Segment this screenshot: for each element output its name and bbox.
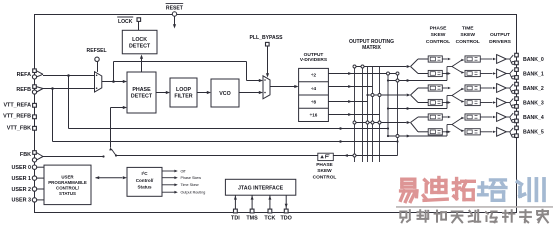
block output V-dividers	[299, 68, 329, 121]
output driver buffer bank 4	[497, 113, 507, 122]
svg-text:OUTPUT ROUTING: OUTPUT ROUTING	[349, 39, 394, 45]
svg-text:LOOP: LOOP	[176, 87, 191, 93]
svg-text:÷2: ÷2	[311, 73, 317, 78]
pin BANK_3 complement output	[515, 105, 519, 109]
svg-text:÷16: ÷16	[310, 113, 318, 118]
svg-text:I²C: I²C	[141, 171, 148, 176]
node REFA branch	[67, 74, 70, 77]
pin BANK_2 complement output	[515, 90, 519, 94]
wire time skew to driver bank 5	[480, 131, 492, 133]
pin TCK	[269, 195, 271, 211]
svg-text:TIME: TIME	[462, 26, 474, 32]
legend arrow Output Routing	[162, 191, 175, 193]
wire REFB to mux	[43, 88, 95, 90]
wire feedback skew to FBK switch	[116, 155, 318, 157]
wire REFSEL to input mux	[97, 62, 99, 72]
svg-text:RESET: RESET	[166, 6, 184, 12]
time skew control block bank 2	[465, 85, 480, 91]
pin TMS	[251, 195, 253, 211]
wire fanout to bank pair 2/3	[407, 94, 411, 97]
svg-text:PHASE: PHASE	[316, 162, 333, 168]
pin TDO	[285, 195, 287, 211]
wire phase skew to crossbar bank 0	[442, 58, 447, 60]
svg-text:LOCK: LOCK	[132, 37, 147, 43]
wire divider output 1 to matrix	[328, 86, 372, 88]
svg-text:BANK_5: BANK_5	[523, 130, 544, 136]
wire matrix direct feed pair 4/5	[388, 135, 447, 137]
wire time skew to driver bank 3	[480, 102, 492, 104]
svg-text:PHASE: PHASE	[132, 87, 151, 93]
wire driver to pins bank 5	[506, 131, 510, 133]
pin BANK_4 true output	[515, 111, 519, 115]
block LOOP FILTER U_LF	[170, 78, 197, 107]
output driver buffer bank 2	[497, 84, 507, 93]
time skew control block bank 1	[465, 70, 480, 76]
input buffer REFB	[36, 87, 43, 89]
svg-text:USER: USER	[61, 175, 74, 180]
matrix right verticals	[387, 74, 389, 137]
watermark underline	[396, 206, 553, 208]
wire driver to pins bank 4	[506, 116, 510, 118]
svg-text:PHASE: PHASE	[430, 26, 448, 32]
watermark brand text	[401, 179, 417, 201]
wire driver to pins bank 0	[506, 58, 510, 60]
wire divider output 2 to matrix	[328, 101, 367, 103]
output driver buffer bank 0	[497, 55, 507, 64]
svg-text:USER 2: USER 2	[12, 187, 31, 193]
input buffer REFA	[36, 71, 43, 75]
wire divider output 3 to matrix	[328, 114, 379, 116]
wire feedback to phase detect	[110, 108, 112, 148]
svg-text:MATRIX: MATRIX	[362, 45, 381, 51]
svg-text:SKEW: SKEW	[460, 32, 475, 38]
wire RESET into chip	[174, 16, 176, 24]
crossbar pair 4/5	[446, 125, 448, 137]
block LOCK DETECT U_LD	[122, 30, 157, 54]
svg-text:REFA: REFA	[17, 72, 31, 78]
svg-text:TDO: TDO	[281, 216, 292, 222]
block I2C CONTROL/STATUS	[127, 167, 162, 196]
block JTAG INTERFACE	[225, 179, 295, 195]
pin BANK_5 true output	[515, 126, 519, 130]
wire driver to pins bank 3	[506, 102, 510, 104]
inversion bubble BANK_2	[512, 90, 515, 93]
wire driver to pins bank 1	[506, 73, 510, 75]
wire FBK to switch	[43, 156, 104, 158]
svg-text:VTT_REFA: VTT_REFA	[3, 102, 31, 108]
wire loop filter to VCO	[197, 92, 207, 94]
wire phase skew to crossbar bank 2	[442, 87, 447, 89]
svg-text:TDI: TDI	[231, 216, 240, 222]
wire phase detect to loop filter	[156, 92, 166, 94]
wire driver to pins bank 2	[506, 87, 510, 89]
svg-text:BANK_1: BANK_1	[523, 71, 544, 77]
phase skew control block bank 2	[428, 85, 442, 91]
svg-text:V-DIVIDERS: V-DIVIDERS	[300, 57, 328, 63]
block VCO U_VCO	[211, 79, 239, 107]
output driver buffer bank 5	[497, 127, 507, 136]
legend arrow Time Skew	[162, 184, 175, 186]
wire matrix direct feed pair 0/1	[388, 80, 447, 82]
svg-text:VCO: VCO	[219, 91, 230, 97]
svg-text:LOCK: LOCK	[118, 19, 133, 25]
wire phase skew to crossbar bank 3	[442, 102, 447, 104]
wire PLL_BYPASS to bypass mux	[267, 46, 269, 74]
svg-text:÷8: ÷8	[311, 99, 317, 104]
wire USER to I2C bidirectional	[96, 177, 123, 179]
time skew control block bank 4	[465, 114, 480, 120]
phase skew control block bank 5	[428, 129, 442, 135]
svg-text:BANK_0: BANK_0	[523, 57, 544, 63]
wire matrix feed bank pair 4/5	[355, 122, 407, 124]
svg-text:CONTROL: CONTROL	[426, 39, 450, 45]
output driver buffer bank 3	[497, 98, 507, 107]
wire matrix to feedback phase skew	[333, 155, 397, 157]
svg-text:PROGRAMMABLE: PROGRAMMABLE	[48, 180, 87, 185]
output routing matrix vertical bus	[354, 67, 356, 163]
svg-text:REFB: REFB	[16, 87, 31, 93]
svg-text:USER 3: USER 3	[12, 198, 31, 204]
svg-text:SKEW: SKEW	[431, 32, 446, 38]
wire VCO to bypass mux	[239, 92, 259, 94]
crossbar pair 2/3	[446, 96, 448, 109]
wire matrix feed bank pair 0/1	[355, 66, 407, 68]
svg-text:SKEW: SKEW	[317, 168, 332, 174]
wire bypass mux to dividers	[270, 86, 295, 88]
pin BANK_4 complement output	[515, 119, 519, 123]
svg-text:Output Routing: Output Routing	[181, 191, 206, 195]
crossbar pair 0/1	[446, 67, 448, 81]
switch FBK select	[111, 149, 116, 156]
inversion bubble BANK_0	[512, 61, 515, 64]
svg-text:BANK_4: BANK_4	[523, 115, 544, 121]
phase skew control block bank 0	[428, 56, 442, 62]
pin BANK_1 true output	[515, 68, 519, 72]
wire PLL bypass path	[113, 62, 115, 82]
svg-text:REFSEL: REFSEL	[87, 48, 107, 54]
node REFB branch	[51, 87, 54, 90]
svg-text:CONTROL: CONTROL	[313, 174, 337, 180]
wire REFA to mux	[43, 75, 95, 77]
wire phase detect to lock detect	[141, 59, 143, 73]
svg-text:CONTROL: CONTROL	[456, 39, 480, 45]
pin BANK_1 complement output	[515, 76, 519, 80]
wire phase skew to crossbar bank 1	[442, 73, 447, 75]
wire REFB test path into matrix	[52, 89, 54, 142]
svg-text:PLL_BYPASS: PLL_BYPASS	[249, 35, 283, 41]
inversion bubble BANK_4	[512, 119, 515, 122]
feedback phase skew control block A/F	[318, 153, 334, 160]
wire divider output 0 to matrix	[328, 73, 397, 75]
legend arrow Off	[162, 170, 175, 172]
wire time skew to driver bank 0	[480, 58, 492, 60]
svg-text:VTT_FBK: VTT_FBK	[7, 125, 31, 131]
IC package outline	[35, 15, 517, 213]
svg-text:USER 1: USER 1	[12, 176, 31, 182]
svg-text:JTAG INTERFACE: JTAG INTERFACE	[238, 186, 284, 192]
pin BANK_0 complement output	[515, 61, 519, 65]
wire fanout to bank pair 4/5	[407, 121, 411, 124]
phase skew control block bank 4	[428, 114, 442, 120]
svg-text:CONTROL/: CONTROL/	[56, 186, 80, 191]
svg-text:FBK: FBK	[20, 152, 31, 158]
time skew control block bank 3	[465, 99, 480, 105]
time skew control block bank 0	[465, 56, 480, 62]
svg-text:BANK_3: BANK_3	[523, 100, 544, 106]
wire mux output to phase detector	[102, 81, 123, 83]
inversion bubble BANK_5	[512, 134, 515, 137]
wire phase skew to crossbar bank 4	[442, 116, 447, 118]
watermark slogan text	[400, 210, 409, 222]
wire fanout to bank pair 0/1	[407, 65, 411, 68]
svg-text:Phase Skew: Phase Skew	[181, 176, 202, 180]
input buffer FBK	[36, 153, 43, 157]
inversion bubble BANK_3	[512, 105, 515, 108]
legend arrow Phase Skew	[162, 177, 175, 179]
wire phase skew to crossbar bank 5	[442, 131, 447, 133]
phase skew control block bank 1	[428, 70, 442, 76]
svg-text:DETECT: DETECT	[131, 93, 153, 99]
svg-text:TCK: TCK	[264, 216, 275, 222]
wire time skew to driver bank 2	[480, 87, 492, 89]
svg-text:VTT_REFB: VTT_REFB	[3, 114, 31, 120]
pin BANK_0 true output	[515, 53, 519, 57]
wire LOCK to lock detect	[138, 21, 140, 30]
wire time skew to driver bank 4	[480, 116, 492, 118]
wire matrix direct feed pair 2/3	[388, 108, 447, 110]
svg-text:OUTPUT: OUTPUT	[490, 32, 510, 38]
svg-text:DRIVERS: DRIVERS	[489, 39, 511, 45]
svg-text:TMS: TMS	[246, 216, 258, 222]
phase skew control block bank 3	[428, 99, 442, 105]
output driver buffer bank 1	[497, 69, 507, 78]
time skew control block bank 5	[465, 129, 480, 135]
pin BANK_3 true output	[515, 97, 519, 101]
svg-text:Status: Status	[137, 184, 151, 189]
pin BANK_2 true output	[515, 82, 519, 86]
pin BANK_5 complement output	[515, 134, 519, 138]
pin TDI	[234, 195, 236, 211]
svg-text:DETECT: DETECT	[129, 44, 151, 50]
block USER PROGRAMMABLE CONTROL/STATUS	[44, 165, 91, 205]
svg-text:USER 0: USER 0	[12, 165, 31, 171]
svg-text:÷4: ÷4	[311, 86, 317, 91]
wire matrix feed bank pair 2/3	[368, 94, 407, 96]
svg-text:Control/: Control/	[136, 178, 154, 183]
block PHASE DETECT U_PD	[127, 72, 156, 113]
svg-text:STATUS: STATUS	[59, 191, 76, 196]
svg-text:BANK_2: BANK_2	[523, 86, 544, 92]
wire time skew to driver bank 1	[480, 73, 492, 75]
node bypass branch	[112, 80, 115, 83]
wire REFA test path into matrix	[68, 76, 70, 129]
mux PLL bypass	[263, 76, 270, 99]
svg-text:FILTER: FILTER	[174, 93, 192, 99]
inversion bubble BANK_1	[512, 76, 515, 79]
svg-text:Time Skew: Time Skew	[181, 183, 199, 187]
mux reference select	[95, 72, 102, 92]
